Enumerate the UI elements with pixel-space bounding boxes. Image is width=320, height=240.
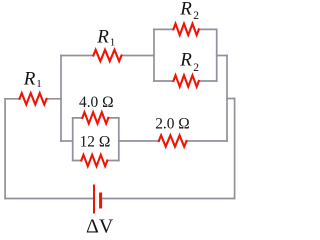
wire: R2 parallel box left edge [153,29,155,81]
wire: junction to 4/12 box [61,140,73,142]
wire: right outer vertical [234,99,236,199]
resistor 2.0 ohm (zigzag) [159,135,187,146]
wire: 4/12 box to 2.0 ohm to inner right vertical [119,140,227,142]
resistor R2 (top branch, zigzag) [173,24,198,35]
svg-text:4.0 Ω: 4.0 Ω [79,94,114,111]
svg-text:2.0 Ω: 2.0 Ω [155,115,190,132]
wire: 4.0 ohm branch leads [73,117,119,119]
label R2 (bottom) [179,50,199,74]
svg-text:R: R [179,50,192,71]
battery long plate [93,186,95,213]
label R2 (top) [179,0,199,22]
resistor 12 ohm (zigzag) [81,155,107,166]
resistor 4.0 ohm (zigzag) [82,112,108,123]
wire: jog between inner and outer right verticals [227,98,235,100]
wire: left vertical [4,99,6,199]
wire: top R1 horizontal leads [61,55,154,57]
label R1 (left) [23,68,42,90]
resistor R2 (bottom branch, zigzag) [173,75,198,86]
wire: bottom left (battery to left corner) [5,198,94,200]
wire: left R1 horizontal leads [5,98,61,100]
wire: R2 top branch leads [154,28,217,30]
svg-text:R: R [179,0,192,19]
battery short plate [99,194,102,207]
svg-text:ΔV: ΔV [86,216,114,235]
wire: inner right vertical [226,56,228,142]
wire: bottom right (battery to right corner) [101,198,235,200]
wire: 4/12 box left edge [72,118,74,161]
svg-text:R: R [96,26,109,47]
wire: 4/12 box right edge [118,118,120,161]
wire: R2 box output to inner right vertical [217,55,227,57]
svg-text:2: 2 [193,62,199,74]
resistor R1 (top, zigzag) [93,50,121,61]
label R1 (top) [96,26,115,48]
svg-text:1: 1 [36,78,42,90]
wire: 12 ohm branch leads [73,160,119,162]
wire: R2 bottom branch leads [154,80,217,82]
wire: center junction vertical [60,56,62,142]
svg-text:2: 2 [193,10,199,22]
svg-text:R: R [23,68,36,89]
resistor R1 (left, zigzag) [20,93,47,104]
svg-text:1: 1 [110,36,116,48]
wire: R2 parallel box right edge [216,29,218,81]
svg-text:12 Ω: 12 Ω [80,133,111,150]
